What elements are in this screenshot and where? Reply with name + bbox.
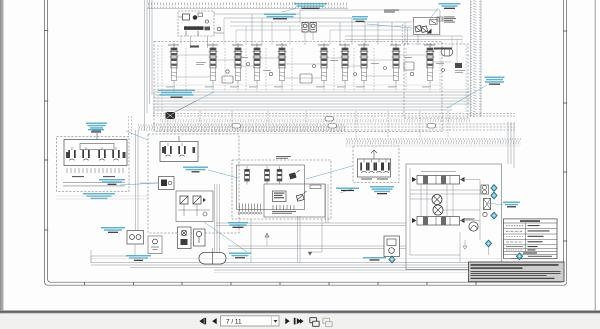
frame zone ticks bottom: [84, 282, 86, 285]
wire: left drop bundle: [129, 116, 139, 231]
pump compartment dashed enclosure: [178, 11, 214, 36]
label: travel pedal pilot valve ref: [370, 186, 394, 194]
toolbar: previous page button: [212, 318, 217, 324]
frame zone ticks right: [563, 30, 567, 32]
port name text marks above spool row: [168, 44, 435, 47]
sheet border frame bottom outer line: [45, 282, 567, 285]
label: case drain filter ref: [126, 255, 151, 261]
case drain filter box (far left bottom): [91, 231, 144, 263]
load check orifice marks along spool row: [222, 62, 445, 83]
solenoid unit port connector row B: [273, 205, 294, 210]
machine body hatched boundary: right vertical band: [471, 0, 482, 117]
main pump P1 gear symbol: [179, 14, 197, 20]
travel motor upper: [432, 195, 442, 205]
air filter symbol: [437, 17, 443, 21]
label: accumulator of hydraulic warning: [83, 193, 115, 199]
label: auto top-up case drain: [101, 227, 125, 233]
pilot filter unit box: [178, 227, 192, 249]
signal control dashed enclosure (center-left): [148, 134, 239, 233]
toolbar: first page button: [199, 318, 206, 325]
barometric sensor text mark: [384, 10, 456, 23]
travel counterbalance valve lower: [412, 217, 465, 226]
wire: control valve outlet bus: [153, 92, 470, 110]
wire: inline couplers on pilot bus: [232, 117, 436, 129]
wire: pump delivery lines top: [214, 10, 462, 45]
label: air-in-oil air filter: [439, 3, 461, 9]
solenoid valve SI: [277, 166, 282, 185]
solenoid shut-off valve box: [194, 229, 206, 246]
machine body hatched boundary: top row: [147, 3, 348, 9]
swing brake release valve: [296, 191, 306, 201]
travel counterbalance valve upper: [412, 172, 465, 185]
toolbar: page number input box: [221, 316, 280, 326]
label leader lines: [120, 8, 503, 252]
swing device gauge diamond: [389, 256, 395, 263]
toolbar: last page button: [294, 318, 304, 325]
toolbar: next page button: [285, 318, 289, 324]
solenoid tilted valve SV: [289, 170, 300, 179]
negative control orifice block: [190, 46, 462, 69]
wire: bottom tank return bus: [91, 250, 511, 270]
extra manifold lines top: [224, 18, 462, 63]
line markings legend table: [504, 219, 558, 259]
gauge diamond D2: [491, 192, 497, 199]
parking brake piston: [463, 219, 479, 232]
pedal labels mark: [63, 176, 125, 186]
flow rate control valve cluster: [176, 191, 213, 222]
label: flow control valve ref: [99, 179, 125, 185]
signal control valve group (center-left): [160, 136, 198, 162]
pilot shut-off dashed enclosure (left): [57, 137, 130, 192]
main pump P2 body: [184, 13, 210, 36]
gauge diamond D4: [485, 240, 491, 247]
air bleed valve block (top right): [414, 18, 440, 35]
toolbar: clipboard icon (disabled): [323, 318, 332, 326]
frame zone ticks left: [44, 31, 567, 286]
control valve section spools: [170, 43, 435, 85]
return line drop to tank: [308, 219, 322, 255]
gauge diamond D1: [491, 185, 497, 192]
solenoid unit port circles A: [238, 212, 261, 214]
drain port stub: [463, 240, 489, 255]
wire: left feed bundle from top: [145, 0, 153, 131]
travel motor lower: [433, 205, 443, 215]
legend row captions: [523, 225, 550, 254]
wire: travel device feed drop: [508, 122, 514, 270]
pump(2) delivery pressure sensor pair: [302, 23, 316, 46]
wire: spool return drops: [168, 85, 448, 138]
viewer right scrollbar edge line: [594, 0, 596, 311]
oil cooler accumulator capsule: [199, 248, 226, 264]
swing device pilot box: [384, 236, 400, 263]
legend row line samples: [506, 226, 523, 250]
label: pump(2) delivery pressure sensor: [264, 14, 296, 20]
center bypass check valve: [265, 233, 269, 246]
solenoid valve unit dashed enclosure: [232, 160, 331, 219]
travel pilot port row: [67, 168, 123, 173]
solenoid valve SC: [245, 166, 250, 185]
label: make-up and overload valve: [352, 16, 368, 22]
solenoid valve SG: [265, 166, 270, 185]
pilot junction manifold (dark): [166, 101, 197, 119]
sheet border frame right outer line: [566, 0, 568, 282]
label: proportional control valve ref: [86, 123, 107, 131]
label: line remove for shipping: [294, 3, 327, 9]
port name text marks below spool row: [166, 57, 465, 87]
main control valve dashed enclosure: [154, 42, 442, 132]
shockless valve small box: [140, 177, 174, 190]
sheet border frame left double line: [45, 0, 567, 285]
main relief valve capsule: [434, 48, 453, 57]
label: oil tank of hydraulic ref: [229, 253, 251, 259]
gauge diamond D3: [491, 212, 497, 219]
travel pilot valve dashed enclosure (right): [353, 146, 399, 183]
solenoid valve unit inner block: [237, 165, 326, 217]
label: travel pilot shut-off ref: [158, 90, 195, 98]
svg-text:7 / 11: 7 / 11: [226, 318, 242, 325]
title block: [469, 262, 565, 282]
wire: solenoid unit feed bus: [216, 223, 406, 249]
scan texture fine lines: [56, 85, 520, 273]
viewer left window edge: [0, 0, 4, 329]
travel device outer box: [406, 164, 502, 270]
travel motor internal wires: [410, 168, 480, 262]
brake shuttle valve column: [481, 185, 491, 217]
dashed pilot feeders left: [158, 45, 466, 113]
legend gauge symbol row: [516, 253, 552, 260]
travel pedal pilot valve (right): [358, 150, 391, 180]
machine body hatched boundary: mid horizontal band right: [345, 138, 521, 145]
wire: center drop bundle: [215, 184, 329, 263]
pilot relief valve block: [273, 191, 287, 202]
machine body hatched boundary: mid horizontal band left: [138, 125, 346, 132]
label: signal pilot control ref: [183, 167, 208, 173]
auxiliary valve section dashed enclosure: [404, 44, 468, 118]
toolbar: snapshot icon: [310, 318, 319, 327]
suction strainer box: [148, 236, 162, 254]
label: 4-spool solenoid valve unit ref: [485, 77, 505, 85]
label: solenoid valve unit ref: [228, 222, 248, 228]
toolbar separator line: [0, 310, 600, 313]
swing brake label mark: [272, 156, 321, 214]
solenoid unit port connector row A: [240, 204, 261, 212]
label: pedal ref small: [88, 129, 104, 133]
travel remote control valve assembly (left): [64, 133, 127, 166]
toolbar background: [0, 314, 600, 329]
interspool pilot links: [177, 55, 452, 78]
label: i/o sensor hg ref: [503, 202, 520, 208]
wire: pilot dashed bus: [153, 114, 515, 131]
wire: pump to valve drops: [181, 36, 208, 48]
machine body hatched boundary: lower band segment: [160, 119, 470, 123]
label: accumulator (2) ref: [336, 188, 359, 192]
label: swing device ref: [363, 257, 386, 261]
pilot pump P3: [214, 27, 224, 33]
